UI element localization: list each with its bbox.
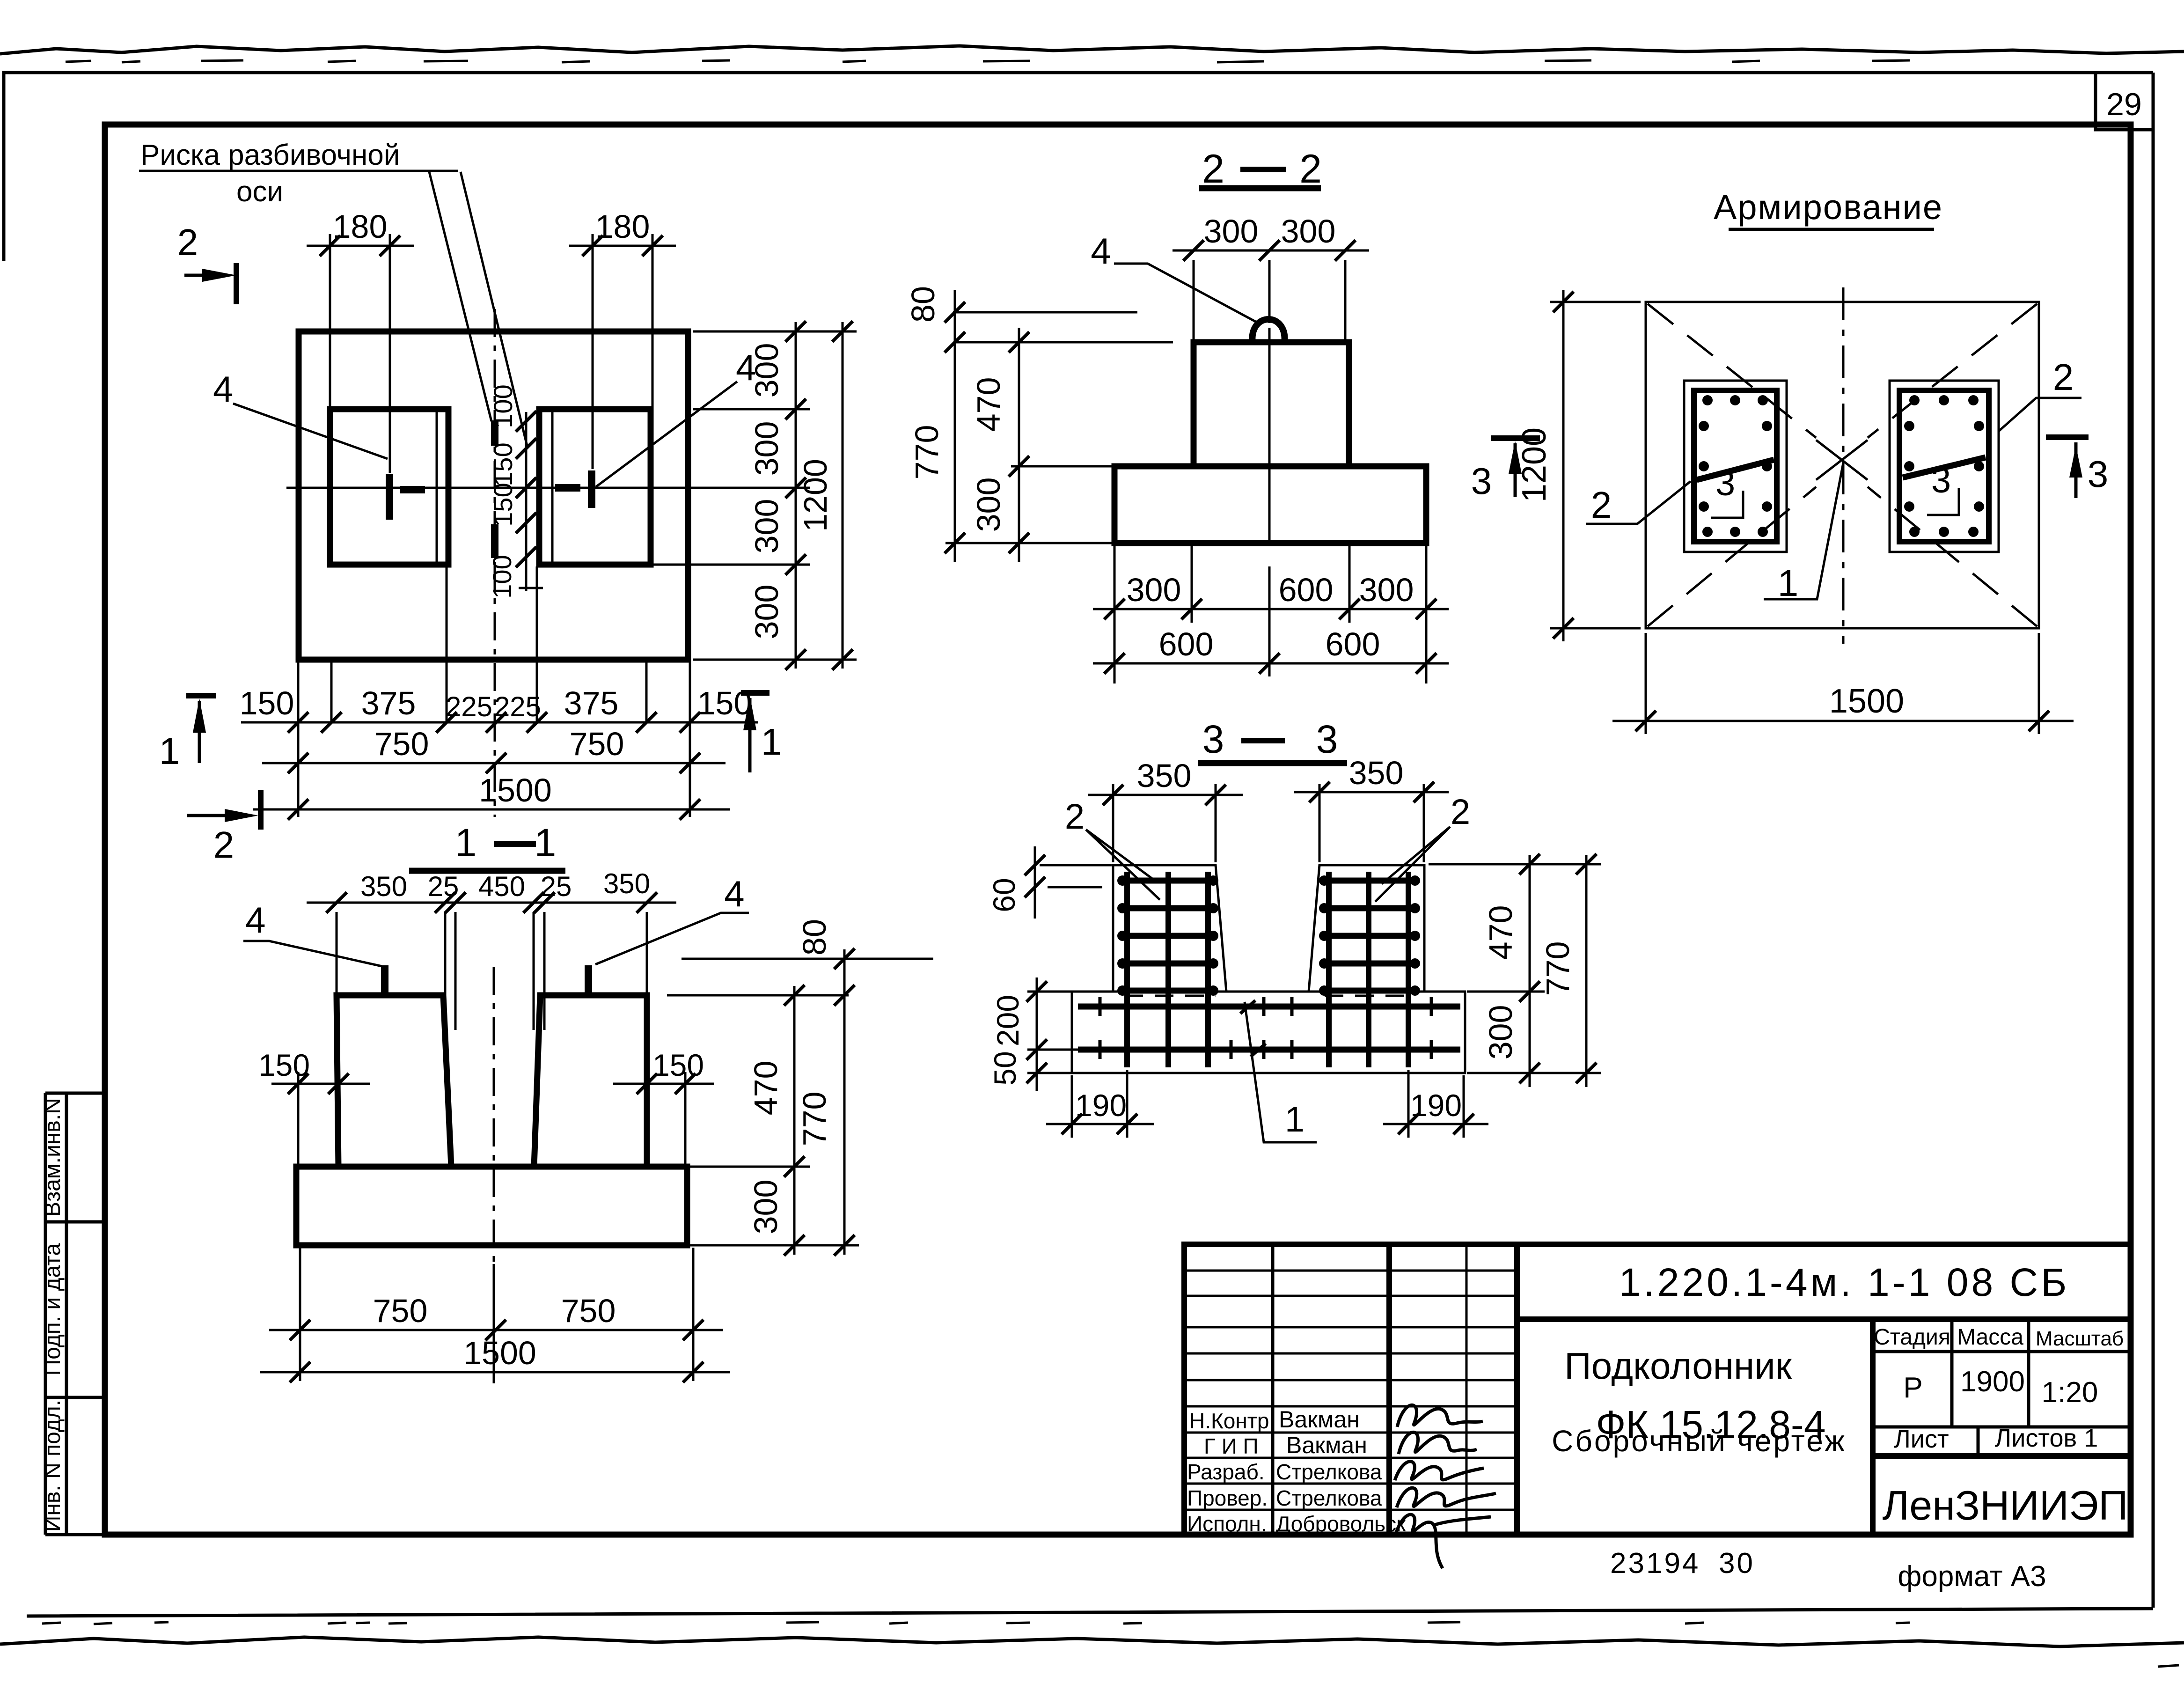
svg-text:1.220.1-4м. 1-1 08 СБ: 1.220.1-4м. 1-1 08 СБ: [1619, 1260, 2070, 1304]
pedestal right: [534, 995, 647, 1167]
dim line 470-300 inner: [970, 328, 1029, 562]
svg-text:1500: 1500: [1829, 683, 1904, 720]
svg-text:100: 100: [488, 384, 518, 428]
svg-text:750: 750: [570, 726, 624, 762]
svg-text:80: 80: [796, 919, 833, 955]
svg-text:Стадия: Стадия: [1874, 1325, 1950, 1350]
svg-text:2: 2: [2053, 356, 2074, 398]
footing outline: [1072, 992, 1465, 1073]
svg-text:200: 200: [990, 995, 1025, 1046]
svg-text:Взам.инв.N: Взам.инв.N: [40, 1098, 65, 1217]
leader 4: [1114, 264, 1258, 323]
centerline: [493, 967, 495, 1264]
svg-text:600: 600: [1279, 572, 1334, 608]
dim 180 right: [569, 208, 676, 469]
dim row 1500: [260, 1335, 730, 1382]
dim row 750 750: [269, 1293, 723, 1340]
svg-text:ЛенЗНИИЭП: ЛенЗНИИЭП: [1883, 1482, 2128, 1529]
svg-text:180: 180: [595, 208, 650, 245]
svg-text:300: 300: [1204, 213, 1259, 250]
dim 1500 bottom: [1612, 633, 2074, 734]
svg-text:150: 150: [652, 1048, 704, 1082]
svg-text:100: 100: [487, 555, 517, 598]
dim 770 right: [1539, 854, 1597, 1087]
leader 4 right: [596, 382, 737, 487]
svg-text:4: 4: [724, 873, 744, 914]
svg-text:150: 150: [258, 1048, 310, 1082]
cage left bar 3: [1697, 460, 1774, 480]
svg-text:Вакман: Вакман: [1279, 1406, 1360, 1433]
svg-text:Масштаб: Масштаб: [2036, 1327, 2124, 1350]
leader 4 left: [243, 941, 382, 966]
dim line 80-770 right outer: [796, 919, 855, 1256]
svg-text:300: 300: [748, 1180, 784, 1235]
leaders 2 left: [1086, 830, 1160, 900]
svg-text:Инв. N подл.: Инв. N подл.: [40, 1400, 65, 1532]
footing block: [1114, 466, 1426, 543]
svg-text:Добровольск: Добровольск: [1276, 1512, 1406, 1536]
svg-text:Лист: Лист: [1894, 1425, 1949, 1453]
rebar stub right: [585, 965, 592, 994]
svg-text:300: 300: [748, 421, 785, 476]
title block main dividers: [1389, 1244, 2131, 1535]
svg-text:1: 1: [455, 821, 477, 865]
svg-text:300: 300: [1281, 213, 1336, 250]
svg-text:2: 2: [1299, 147, 1322, 191]
lifting loop: [1252, 319, 1284, 343]
svg-text:1: 1: [761, 721, 782, 763]
cage left rebar dots: [1699, 395, 1772, 537]
svg-text:1900: 1900: [1960, 1366, 2025, 1398]
svg-text:4: 4: [213, 368, 233, 410]
extension footing bottom left: [945, 542, 1114, 544]
riska mark left pocket vertical: [386, 474, 393, 520]
svg-text:25: 25: [428, 871, 459, 902]
svg-text:150: 150: [488, 442, 518, 486]
svg-text:Н.Контр.: Н.Контр.: [1189, 1409, 1275, 1433]
title block thin grid left part: [1271, 1244, 1275, 1535]
svg-text:Г И П: Г И П: [1204, 1434, 1259, 1458]
dim 150 left: [258, 1048, 370, 1165]
level line pedestal top right: [667, 994, 849, 997]
dim row 600 600: [1093, 626, 1449, 674]
bottom extension lines: [1114, 545, 1426, 683]
dim line 80-770 outer: [905, 286, 965, 562]
svg-text:Р: Р: [1903, 1372, 1922, 1404]
svg-text:1:20: 1:20: [2042, 1376, 2098, 1409]
title underline: [1729, 228, 1934, 231]
footing slab: [296, 1167, 687, 1245]
svg-text:Сборочный чертеж: Сборочный чертеж: [1552, 1424, 1847, 1458]
plan right extension lines: [653, 331, 857, 660]
svg-text:2: 2: [1065, 797, 1085, 837]
dim chain 300x4: [748, 321, 806, 670]
svg-text:750: 750: [374, 726, 429, 762]
dim 1200: [797, 321, 853, 670]
svg-text:375: 375: [361, 685, 416, 721]
vertical centerline: [1842, 287, 1845, 644]
section marker 3 left of reinforcement view: [1471, 438, 1540, 502]
transverse bar ticks: [1100, 997, 1431, 1059]
svg-text:750: 750: [561, 1293, 616, 1329]
svg-text:225: 225: [446, 691, 492, 722]
torn paper dashes bottom: [42, 1622, 2179, 1667]
svg-text:29: 29: [2106, 87, 2142, 122]
centerline: [1268, 328, 1271, 543]
leader 2 right: [1998, 398, 2081, 432]
slab outline: [1646, 302, 2039, 628]
dim row 750 750: [262, 726, 726, 773]
leader 4 right: [595, 913, 749, 964]
cage right rebar dots: [1904, 395, 1984, 537]
svg-text:300: 300: [748, 585, 785, 639]
signature Vak 2: [1399, 1432, 1477, 1454]
cage left label bracket: [1711, 491, 1743, 518]
leader 1: [1764, 463, 1843, 599]
pocket right: [539, 409, 651, 565]
svg-text:2: 2: [1591, 484, 1612, 526]
plan outline: [299, 331, 688, 660]
svg-text:2: 2: [1202, 147, 1224, 191]
leader 1: [1245, 1002, 1317, 1142]
title block outline: [1184, 1244, 2131, 1535]
cage right outer: [1890, 381, 1999, 552]
plan vertical centerline: [494, 309, 496, 817]
footing bar bottom: [1078, 1047, 1460, 1053]
signature Yu 2: [1397, 1488, 1496, 1507]
dim 180 left: [307, 208, 414, 473]
cage right horizontal bars: [1324, 881, 1415, 991]
bottom extension lines: [300, 1248, 693, 1383]
footing bar top: [1078, 1004, 1460, 1010]
cage right vertical bars: [1329, 872, 1408, 1067]
extension footing right: [689, 1167, 859, 1245]
svg-text:470: 470: [748, 1061, 784, 1116]
svg-text:Подп. и дата: Подп. и дата: [40, 1243, 65, 1375]
svg-text:770: 770: [796, 1092, 833, 1146]
svg-text:300: 300: [970, 478, 1007, 532]
cage right label bracket: [1927, 488, 1959, 515]
svg-text:770: 770: [1539, 941, 1576, 996]
svg-text:2: 2: [177, 221, 198, 263]
leader 4 left: [233, 404, 388, 459]
middle dim column 100-150-150-100: [487, 384, 543, 598]
extension footing top left: [1011, 465, 1114, 468]
svg-text:23194: 23194: [1610, 1547, 1700, 1580]
svg-text:оси: оси: [236, 176, 283, 208]
title 2-2: [1199, 147, 1322, 191]
svg-text:25: 25: [541, 871, 572, 902]
svg-text:1200: 1200: [1516, 427, 1553, 502]
center cross: [1816, 440, 1868, 480]
top extension lines: [337, 912, 647, 1030]
svg-text:1: 1: [1778, 562, 1799, 604]
svg-text:150: 150: [488, 483, 518, 526]
dim 470-300 right: [1482, 854, 1540, 1087]
pedestal left outline: [1113, 865, 1226, 992]
torn paper dashes top: [66, 60, 1910, 62]
leader to axis mark 1: [429, 172, 491, 421]
svg-text:1500: 1500: [463, 1335, 536, 1371]
svg-text:30: 30: [1719, 1547, 1755, 1580]
svg-text:Риска разбивочной: Риска разбивочной: [140, 139, 400, 171]
title block right grid: [1873, 1319, 2131, 1456]
svg-text:1: 1: [1285, 1100, 1305, 1139]
svg-text:350: 350: [603, 868, 650, 899]
signature Vak 1: [1397, 1405, 1483, 1427]
svg-text:Масса: Масса: [1957, 1325, 2023, 1350]
torn paper edge top: [0, 46, 2184, 54]
axis riska mark bottom: [491, 524, 498, 558]
column block: [1194, 342, 1349, 466]
hidden edge dashes: [1124, 995, 1414, 997]
svg-text:4: 4: [1091, 230, 1111, 272]
dim row 350 25 450 25 350: [307, 868, 676, 913]
pocket left inner line: [436, 409, 438, 565]
section marker 1 right: [741, 693, 782, 772]
dim 350 top right: [1294, 755, 1449, 862]
svg-text:300: 300: [1127, 572, 1181, 608]
svg-text:3: 3: [1316, 717, 1338, 761]
pocket left: [330, 409, 448, 565]
svg-text:600: 600: [1326, 626, 1380, 662]
signature Dob: [1396, 1514, 1491, 1568]
dim row 1500: [253, 772, 730, 820]
svg-text:Стрелкова: Стрелкова: [1276, 1460, 1382, 1484]
svg-text:Провер.: Провер.: [1187, 1486, 1268, 1510]
svg-text:1: 1: [159, 730, 180, 772]
section marker 1 left: [159, 696, 216, 772]
svg-text:180: 180: [333, 208, 388, 245]
dim 1200 left: [1516, 290, 1641, 641]
svg-text:350: 350: [1137, 757, 1192, 794]
svg-text:80: 80: [905, 286, 941, 323]
svg-text:450: 450: [478, 871, 525, 902]
level line 80 top: [953, 311, 1137, 314]
section marker 2 top: [177, 221, 236, 304]
svg-text:300: 300: [748, 343, 785, 398]
svg-text:190: 190: [1410, 1088, 1462, 1123]
note underline: [139, 170, 458, 172]
cage right bar 3: [1903, 457, 1986, 478]
cage right hoop: [1899, 390, 1989, 542]
svg-text:2: 2: [213, 824, 235, 866]
rebar stub left: [381, 965, 388, 994]
section marker 3 right of reinforcement view: [2046, 437, 2108, 498]
dim 200-50 left: [988, 977, 1081, 1091]
level line stub top: [682, 958, 933, 960]
cage left horizontal bars: [1122, 881, 1213, 991]
svg-text:300: 300: [1359, 572, 1414, 608]
dim row 300 600 300: [1093, 572, 1449, 619]
level line column top: [955, 341, 1173, 344]
dashed diagonals: [1648, 304, 2037, 626]
cage left vertical bars: [1127, 872, 1208, 1067]
leader 2 left: [1586, 481, 1691, 524]
dim 190 right: [1383, 1070, 1488, 1138]
svg-text:470: 470: [1482, 905, 1519, 960]
riska mark right pocket horizontal: [555, 484, 580, 492]
riska mark right pocket vertical: [588, 470, 595, 508]
leader to axis mark 2: [461, 172, 527, 446]
svg-text:4: 4: [245, 899, 265, 941]
title 1-1: [409, 821, 565, 871]
dim 300 300 top: [1173, 213, 1369, 340]
leader 1 crossing ticks: [1240, 1000, 1266, 1057]
page number box: [2096, 73, 2153, 130]
dim 350 top left: [1088, 757, 1243, 862]
dim 150 right: [613, 1048, 714, 1165]
svg-text:3: 3: [2088, 453, 2109, 495]
svg-text:Подколонник: Подколонник: [1564, 1345, 1792, 1387]
torn paper edge bottom: [0, 1637, 2184, 1646]
pedestal left: [337, 995, 451, 1167]
svg-text:Листов 1: Листов 1: [1995, 1424, 2098, 1452]
left stamp boxes: [45, 1093, 105, 1535]
svg-text:225: 225: [494, 691, 541, 722]
plan horizontal centerline: [286, 487, 704, 489]
section marker 2 bottom: [187, 790, 261, 866]
bottom extension lines: [298, 566, 690, 817]
axis riska mark top: [491, 420, 498, 446]
cage left outer: [1684, 381, 1787, 552]
signature Yu 1: [1395, 1462, 1484, 1480]
svg-text:Исполн.: Исполн.: [1187, 1512, 1267, 1536]
svg-text:300: 300: [1482, 1005, 1519, 1060]
dim line 470-300 right inner: [748, 985, 805, 1256]
dim 60 left: [987, 846, 1112, 919]
svg-text:2: 2: [1451, 792, 1470, 832]
riska mark left pocket horizontal: [400, 486, 425, 493]
main drawing frame: [105, 125, 2131, 1535]
svg-text:Стрелкова: Стрелкова: [1276, 1486, 1382, 1510]
svg-text:60: 60: [987, 878, 1021, 912]
svg-text:770: 770: [909, 425, 945, 480]
svg-text:350: 350: [1349, 755, 1404, 791]
svg-text:3: 3: [1931, 461, 1951, 500]
cage left hoop: [1694, 390, 1777, 542]
dim 190 left: [1046, 1070, 1154, 1138]
svg-text:Армирование: Армирование: [1714, 188, 1943, 227]
svg-text:600: 600: [1159, 626, 1214, 662]
svg-text:формат А3: формат А3: [1898, 1560, 2046, 1593]
svg-text:150: 150: [240, 685, 294, 721]
svg-text:750: 750: [373, 1293, 428, 1329]
leaders 2 right: [1375, 827, 1450, 902]
svg-text:375: 375: [564, 685, 619, 721]
svg-text:3: 3: [1715, 463, 1735, 503]
svg-text:3: 3: [1471, 460, 1492, 502]
svg-text:190: 190: [1075, 1088, 1127, 1123]
dim row 150 375 225 225 375 150: [240, 685, 758, 733]
svg-text:1500: 1500: [479, 772, 552, 808]
svg-text:Разраб.: Разраб.: [1187, 1460, 1265, 1484]
pedestal right outline: [1309, 865, 1424, 992]
svg-text:1200: 1200: [797, 459, 834, 532]
pocket right inner line: [551, 409, 554, 565]
svg-text:50: 50: [988, 1051, 1022, 1085]
svg-text:300: 300: [748, 499, 785, 554]
svg-text:3: 3: [1202, 717, 1224, 761]
title 3-3: [1198, 717, 1347, 763]
svg-text:350: 350: [360, 871, 407, 902]
svg-text:Вакман: Вакман: [1286, 1432, 1367, 1458]
svg-text:470: 470: [970, 377, 1007, 432]
right extension lines: [1429, 864, 1601, 1073]
svg-text:1: 1: [535, 821, 557, 865]
